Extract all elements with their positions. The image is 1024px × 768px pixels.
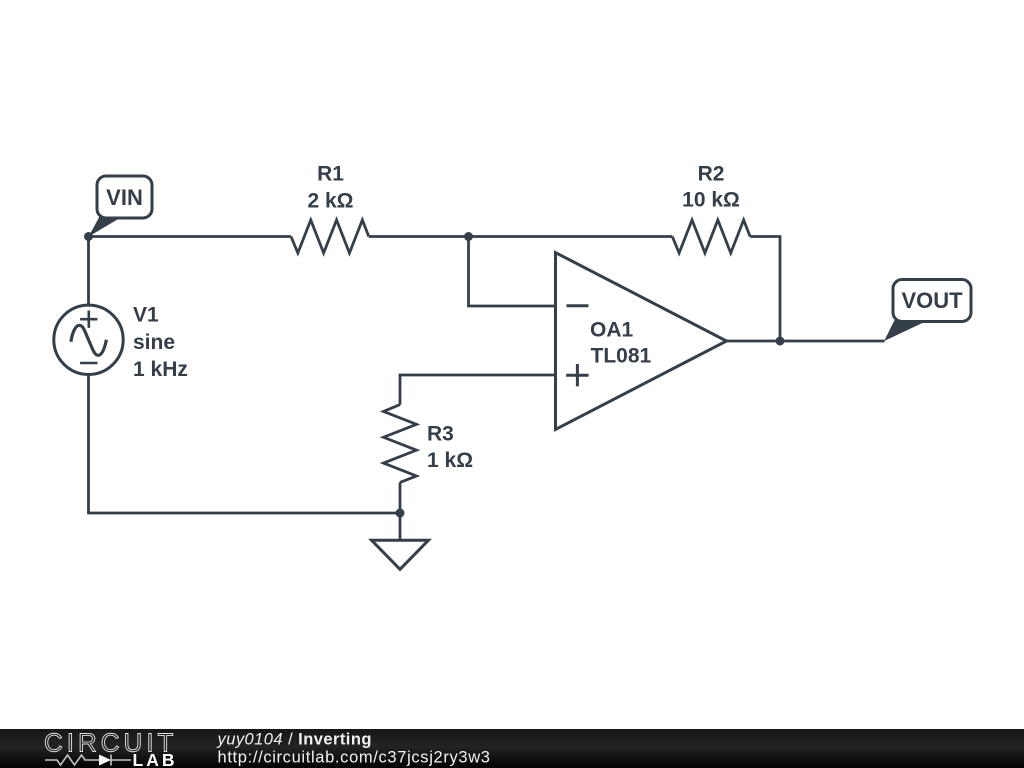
svg-text:yuy0104 / Inverting: yuy0104 / Inverting [217,731,372,749]
svg-text:OA1: OA1 [590,319,634,342]
resistor R1 zigzag [291,220,369,253]
VIN flag rounded box [97,176,152,218]
wire R3 bottom to ground node [399,482,402,513]
V1 sine waveform glyph [71,325,107,355]
CircuitLab logo diode symbol [99,755,111,766]
wire output from op-amp apex to VOUT pointer [727,340,885,343]
V1 minus polarity mark [80,362,97,365]
svg-text:10 kΩ: 10 kΩ [682,189,740,212]
svg-text:R2: R2 [698,163,725,186]
op-amp U OA1 triangle body [556,253,727,430]
wire VIN node to R1 left lead [89,235,292,238]
svg-text:sine: sine [133,331,175,354]
junction node at output [776,337,785,346]
op-amp non-inverting pin plus symbol [566,364,588,386]
junction node at ground rail [396,509,405,518]
VOUT flag rounded box [893,280,971,322]
VIN flag pointer [89,217,123,237]
V1 plus polarity mark [80,311,97,328]
ground symbol triangle [372,540,429,569]
svg-text:2 kΩ: 2 kΩ [307,190,353,213]
wire non-inverting input to R3 top [400,375,556,405]
svg-text:LAB: LAB [133,750,178,768]
svg-text:VOUT: VOUT [901,288,963,313]
VOUT flag pointer [884,320,926,341]
voltage source V1 circle [54,305,123,374]
svg-text:TL081: TL081 [591,345,652,368]
wire V1 bottom to ground rail [89,375,401,514]
svg-text:1 kΩ: 1 kΩ [427,449,473,472]
CircuitLab logo diode cathode bar and lead [111,755,131,766]
svg-text:R1: R1 [317,163,344,186]
wire node N2 down and right to inverting input [469,237,556,307]
wire R2 right to feedback corner down to output node [750,237,780,342]
CircuitLab logo wire with resistor [45,755,99,765]
wire R1 to R2 through node N2 [369,235,673,238]
svg-text:VIN: VIN [106,185,143,210]
wire ground stem [399,513,402,540]
svg-text:R3: R3 [427,423,454,446]
junction node N2 (R1/R2/inverting input) [464,232,473,241]
resistor R2 zigzag [672,220,750,253]
svg-text:V1: V1 [133,304,159,327]
svg-text:http://circuitlab.com/c37jcsj2: http://circuitlab.com/c37jcsj2ry3w3 [218,749,491,767]
junction node at VIN [84,232,93,241]
wire V1 top lead [87,237,90,306]
svg-text:1 kHz: 1 kHz [133,358,188,381]
footer banner background [0,729,1024,768]
resistor R3 zigzag [384,405,417,483]
op-amp inverting pin minus symbol [567,304,589,307]
